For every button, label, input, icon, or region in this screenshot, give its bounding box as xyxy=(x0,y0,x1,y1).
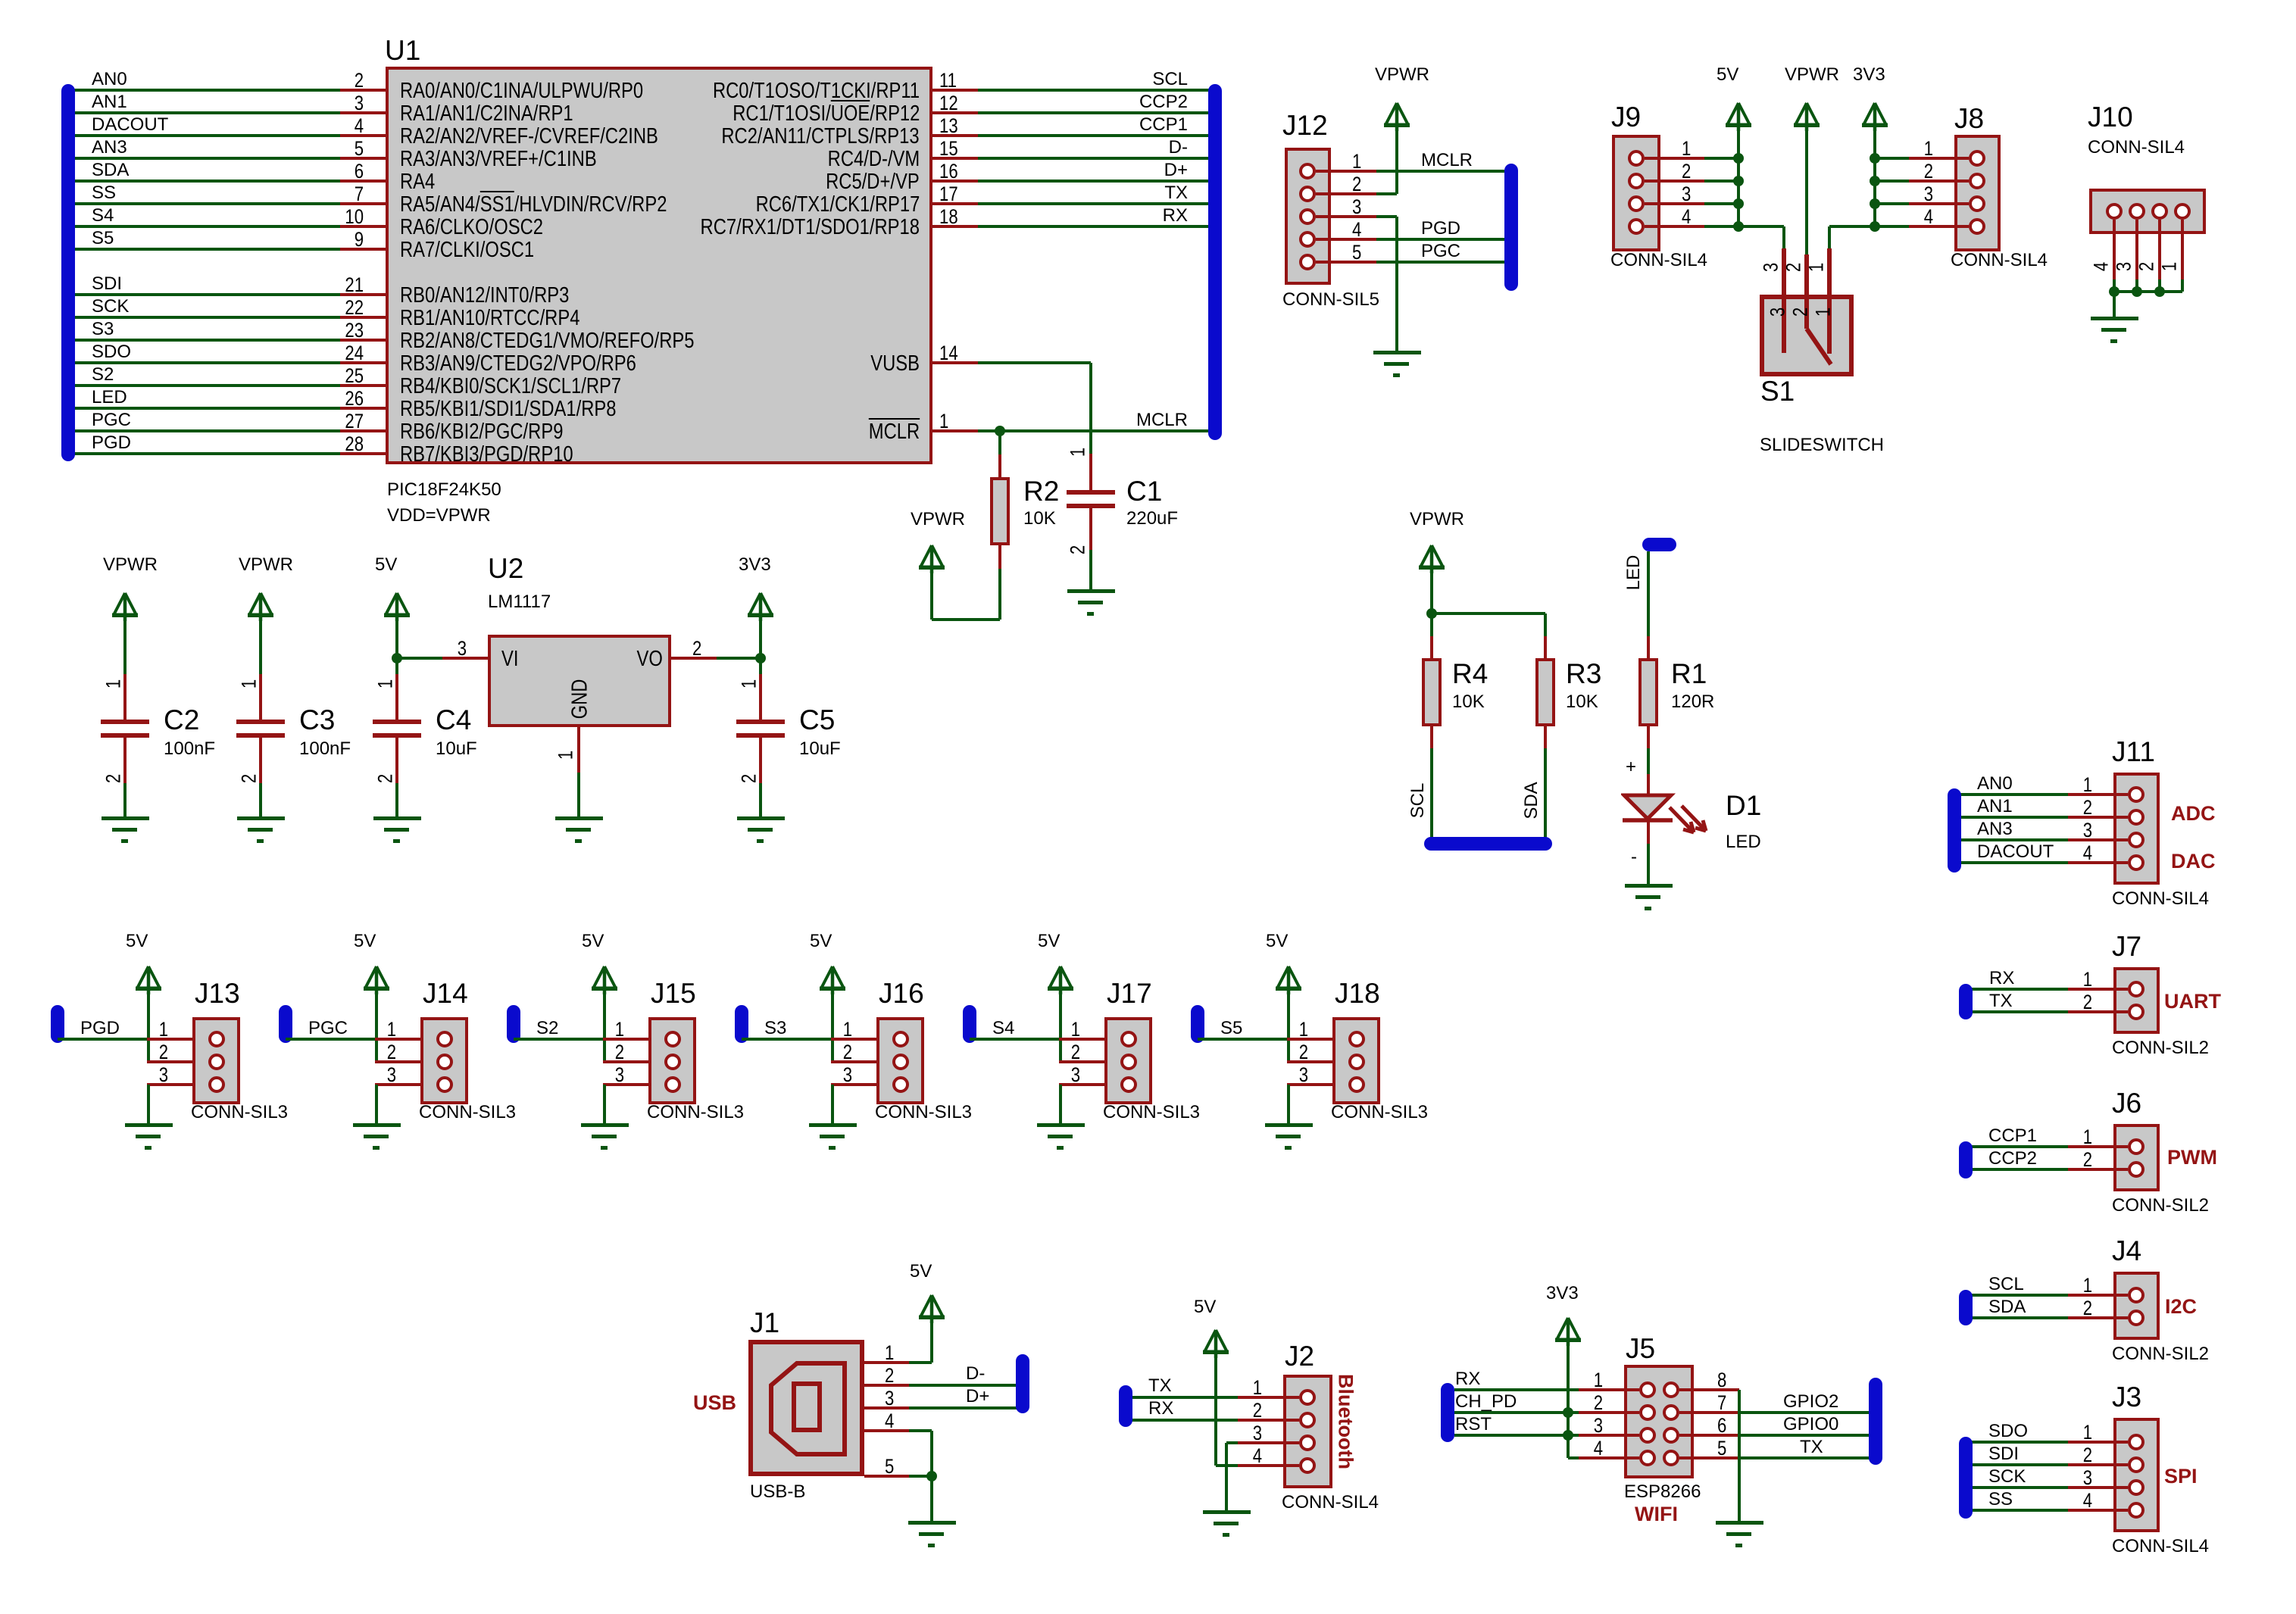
U1 pin 1 MCLR stub xyxy=(932,429,978,432)
J15 value CONN-SIL3 xyxy=(647,1102,744,1123)
J5 pin 5 circle xyxy=(1663,1450,1679,1466)
net label SDA at J4 xyxy=(1988,1297,2026,1318)
wire net PGC to U1 pin 27 xyxy=(68,429,340,432)
C1 value 220uF xyxy=(1126,508,1178,529)
U1 pin number 5 xyxy=(355,137,364,161)
J10 pin number 4 (rotated) xyxy=(2090,262,2113,271)
wire 5V stem at J2 xyxy=(1214,1353,1217,1466)
wire junction to R3 xyxy=(1432,612,1545,615)
wire net DACOUT to U1 pin 4 xyxy=(68,134,340,137)
S1 pin 2 lead xyxy=(1804,254,1809,329)
net label AN3 at J11 xyxy=(1977,819,2013,840)
J4 pin number 1 xyxy=(2083,1274,2092,1297)
J5 pin number 8 xyxy=(1717,1369,1726,1392)
net label TX at J7 xyxy=(1989,991,2013,1012)
wire net AN3 to J11 pin 3 xyxy=(1950,838,2068,841)
J8 pin 4 circle xyxy=(1969,218,1985,235)
U1 pin number 4 xyxy=(355,114,364,138)
ground symbol below J15 xyxy=(580,1123,629,1152)
J18 pin number 1 xyxy=(1299,1018,1308,1041)
J3 pin number 1 xyxy=(2083,1421,2092,1444)
connector J5 reference label xyxy=(1626,1333,1655,1365)
wire up to VPWR symbol xyxy=(930,568,933,620)
S1 inner pin number 1 (rotated) xyxy=(1812,308,1835,317)
wire D+ net xyxy=(909,1406,1017,1410)
wire net CCP2 to J6 pin 2 xyxy=(1961,1168,2068,1171)
J1 pin 1 stub xyxy=(864,1361,909,1364)
wire net RX from U1 pin 18 xyxy=(978,225,1215,228)
U2 GND pin stub xyxy=(577,727,580,773)
S1 outer pin number 3 (rotated) xyxy=(1760,263,1783,272)
net label SCL xyxy=(1152,69,1188,90)
wire net S4 to U1 pin 10 xyxy=(68,225,340,228)
J16 pin 1 circle xyxy=(892,1031,909,1047)
power symbol VPWR above S1 xyxy=(1792,101,1821,131)
connector J13 reference label xyxy=(195,978,240,1010)
power symbol 5V above J2 xyxy=(1201,1328,1230,1358)
S1 outer pin number 1 (rotated) xyxy=(1805,263,1829,272)
wire J16 pin 3 to ground xyxy=(831,1085,834,1123)
J18 value CONN-SIL3 xyxy=(1331,1102,1428,1123)
wire RX to J2 pin2 xyxy=(1132,1419,1238,1422)
D1 cathode lead xyxy=(1647,820,1650,844)
wire 5V elbow J13 pin 2 xyxy=(147,1060,150,1063)
connector J4 reference label xyxy=(2112,1235,2141,1267)
S1 inner pin number 3 (rotated) xyxy=(1767,308,1790,317)
wire J10 pin3 down xyxy=(2135,279,2138,292)
J13 value CONN-SIL3 xyxy=(191,1102,288,1123)
J9 pin 2 lead xyxy=(1645,180,1704,183)
power label VPWR xyxy=(911,509,965,530)
junction above R4 xyxy=(1426,608,1437,619)
net label PGC at J12 xyxy=(1421,241,1460,262)
wire VPWR stem to S1 pin 2 xyxy=(1805,126,1808,254)
J2 pin 4 circle xyxy=(1299,1457,1316,1474)
C2 pin number 2 (rotated) xyxy=(102,774,126,783)
J11 pin 4 lead xyxy=(2068,861,2128,864)
port label Bluetooth (rotated) xyxy=(1334,1374,1357,1469)
C4 pin 1 lead xyxy=(395,674,398,720)
J2 pin number 2 xyxy=(1253,1399,1262,1422)
J17 pin number 2 xyxy=(1071,1041,1080,1064)
net label LED (rotated) xyxy=(1623,555,1645,591)
capacitor C1 plates xyxy=(1067,490,1115,495)
J11 value CONN-SIL4 xyxy=(2112,888,2209,910)
USB receptacle icon xyxy=(767,1359,847,1459)
U1 pin number 25 xyxy=(345,364,364,388)
ground symbol below D1 xyxy=(1624,884,1673,913)
U1 pin number 26 xyxy=(345,387,364,411)
R1 value 120R xyxy=(1671,691,1714,713)
R2 value 10K xyxy=(1023,508,1056,529)
wire 5V stem at J1 xyxy=(930,1318,933,1363)
junction J10 pin3 xyxy=(2132,286,2142,297)
C3 value 100nF xyxy=(299,738,351,760)
wire net CCP1 from U1 pin 13 xyxy=(978,134,1215,137)
connector J7 body xyxy=(2113,967,2160,1034)
U1 pin name RB0 xyxy=(400,283,569,308)
connector J15 body xyxy=(648,1017,696,1104)
connector J17 reference label xyxy=(1107,978,1152,1010)
J10 pin number 3 (rotated) xyxy=(2113,262,2136,271)
port label WIFI xyxy=(1635,1503,1678,1526)
U1 pin number 23 xyxy=(345,319,364,342)
J5 pin number 4 xyxy=(1594,1437,1603,1460)
power label 5V above J18 xyxy=(1266,931,1288,952)
R4 bottom pin xyxy=(1430,725,1433,748)
port label I2C xyxy=(2165,1295,2197,1319)
D1 value LED xyxy=(1726,832,1761,853)
power label 5V above J2 xyxy=(1194,1297,1216,1318)
power symbol 5V above J17 xyxy=(1046,964,1075,994)
S1 pin 1 lead xyxy=(1827,248,1832,354)
J13 pin 1 circle xyxy=(208,1031,225,1047)
J2 pin 2 lead xyxy=(1238,1419,1299,1422)
junction on MCLR net xyxy=(995,426,1005,436)
power label 5V above J17 xyxy=(1038,931,1060,952)
J17 pin 3 circle xyxy=(1120,1076,1137,1093)
wire CH_PD to J5 pin2 xyxy=(1454,1411,1579,1414)
net label PGC xyxy=(92,410,131,431)
wire VUSB to C1 xyxy=(978,361,1091,364)
wire down to ground at J12 xyxy=(1395,217,1398,351)
J8 pin number 1 xyxy=(1924,137,1933,161)
junction 5V rail row 2 xyxy=(1733,176,1744,186)
C1 reference label xyxy=(1126,476,1162,507)
U1 pin 7 stub xyxy=(340,202,386,205)
J13 pin 3 lead xyxy=(147,1083,192,1086)
J3 pin number 4 xyxy=(2083,1489,2092,1513)
U1 pin number 17 xyxy=(939,183,958,206)
U1 pin name RC6 xyxy=(755,192,920,217)
J11 pin 4 circle xyxy=(2128,854,2144,871)
wire J12 pin2 to VPWR xyxy=(1376,192,1397,195)
wire R2 bottom horizontal xyxy=(932,618,1000,621)
power label 5V above J13 xyxy=(126,931,148,952)
net label S2 xyxy=(536,1018,558,1039)
J18 pin 2 lead xyxy=(1287,1060,1332,1063)
junction J10 pin4 xyxy=(2109,286,2120,297)
J14 value CONN-SIL3 xyxy=(419,1102,516,1123)
connector J2 body xyxy=(1283,1375,1332,1488)
ground symbol below C3 xyxy=(236,816,285,845)
U1 pin name RB2 xyxy=(400,329,695,354)
wire 3V3 rail to J8 pin 3 xyxy=(1875,202,1909,205)
J12 pin 4 lead xyxy=(1316,238,1376,241)
S1 pin 3 lead xyxy=(1782,248,1786,353)
J8 pin 3 circle xyxy=(1969,195,1985,212)
junction 5V rail row 4 xyxy=(1733,221,1744,232)
U1 pin number 11 xyxy=(939,69,957,92)
J15 pin 3 circle xyxy=(664,1076,681,1093)
J4 pin 1 lead xyxy=(2068,1294,2128,1297)
connector J9 reference label xyxy=(1611,101,1641,133)
junction 3V3 rail row 1 xyxy=(1870,153,1880,164)
J9 pin 3 circle xyxy=(1628,195,1645,212)
ground symbol below C1 xyxy=(1067,589,1115,618)
connector J9 body xyxy=(1612,135,1660,251)
wire R4 to SCL terminal xyxy=(1430,748,1433,844)
wire PGC to J14 pin 1 xyxy=(286,1038,375,1041)
U1 pin name RA2 xyxy=(400,124,658,149)
net label AN0 at J11 xyxy=(1977,773,2013,795)
power label 5V above J9 xyxy=(1717,64,1738,86)
U1 pin number 10 xyxy=(345,205,364,229)
U1 pin number 24 xyxy=(345,342,364,365)
J17 pin 2 lead xyxy=(1059,1060,1104,1063)
resistor R3 xyxy=(1535,658,1555,726)
wire C4 pin 2 to ground xyxy=(395,783,398,816)
junction 3V3 rail row 4 xyxy=(1870,221,1880,232)
U1 pin 21 stub xyxy=(340,293,386,296)
J1 pin 4 stub xyxy=(864,1429,909,1432)
R2 top pin xyxy=(998,454,1001,477)
wire net SDO to U1 pin 24 xyxy=(68,361,340,364)
J18 pin 1 circle xyxy=(1348,1031,1365,1047)
wire VPWR to C2 pin 1 xyxy=(123,613,127,674)
C3 reference label xyxy=(299,704,335,736)
net label CCP1 at J6 xyxy=(1988,1125,2037,1147)
J16 pin 2 circle xyxy=(892,1054,909,1070)
J1 pin 2 stub xyxy=(864,1384,909,1387)
S1 blade xyxy=(1803,326,1837,368)
U1 pin 22 stub xyxy=(340,316,386,319)
wire J5 pin8 to ground rail xyxy=(1738,1390,1741,1521)
J11 pin 1 lead xyxy=(2068,793,2128,796)
port label ADC xyxy=(2171,802,2216,826)
wire net DACOUT to J11 pin 4 xyxy=(1950,861,2068,864)
wire VPWR to C3 pin 1 xyxy=(259,613,262,674)
U1 pin 26 stub xyxy=(340,407,386,410)
net label RX at J5 xyxy=(1455,1369,1480,1390)
J16 value CONN-SIL3 xyxy=(875,1102,972,1123)
J7 pin 1 circle xyxy=(2128,981,2144,997)
C4 value 10uF xyxy=(436,738,477,760)
J16 pin 2 lead xyxy=(831,1060,876,1063)
U2 pin name GND (rotated) xyxy=(568,679,593,720)
C5 value 10uF xyxy=(799,738,841,760)
U1 pin name RA7 xyxy=(400,238,534,263)
U1 pin name RA0 xyxy=(400,79,643,104)
J3 pin 1 lead xyxy=(2068,1441,2128,1444)
wire J1 pin4 elbow xyxy=(909,1429,932,1432)
J15 pin 1 circle xyxy=(664,1031,681,1047)
C4 pin number 2 (rotated) xyxy=(374,774,398,783)
junction 3V3/CH_PD xyxy=(1563,1407,1573,1418)
power label 3V3 above C5 xyxy=(739,554,771,576)
wire net TX from U1 pin 17 xyxy=(978,202,1215,205)
J1 pin number 4 xyxy=(885,1410,894,1433)
C4 pin number 1 (rotated) xyxy=(374,679,398,688)
net label CCP2 at J6 xyxy=(1988,1148,2037,1169)
U2 pin 3 stub xyxy=(442,657,488,660)
U1 pin name MCLR xyxy=(869,420,920,445)
net label SS xyxy=(92,183,116,204)
connector J14 body xyxy=(420,1017,468,1104)
power symbol 5V above J15 xyxy=(590,964,619,994)
wire net SCK to U1 pin 22 xyxy=(68,316,340,319)
connector J8 reference label xyxy=(1954,103,1984,135)
J12 pin 5 circle xyxy=(1299,254,1316,270)
U1 pin number 14 xyxy=(939,342,958,365)
J11 pin 1 circle xyxy=(2128,786,2144,803)
junction 3V3/RST xyxy=(1563,1430,1573,1441)
ground symbol below J16 xyxy=(808,1123,857,1152)
wire net CCP1 to J6 pin 1 xyxy=(1961,1145,2068,1148)
terminal strip TX/RX at J2 xyxy=(1119,1385,1132,1427)
C2 value 100nF xyxy=(164,738,215,760)
R2 bottom pin xyxy=(998,545,1001,569)
junction at J1 pin 5 xyxy=(926,1471,937,1481)
U1 pin name RA4 xyxy=(400,170,435,195)
connector J1 USB-B body xyxy=(748,1340,864,1476)
J9 pin number 4 xyxy=(1682,205,1691,229)
C5 pin number 1 (rotated) xyxy=(738,679,761,688)
C2 pin number 1 (rotated) xyxy=(102,679,126,688)
connector J10 value CONN-SIL4 xyxy=(2088,137,2185,158)
J10 pin 2 lead xyxy=(2158,220,2161,279)
J17 pin number 1 xyxy=(1071,1018,1080,1041)
J1 pin number 2 xyxy=(885,1364,894,1388)
J10 pin number 2 (rotated) xyxy=(2135,262,2159,271)
J5 pin number 3 xyxy=(1594,1414,1603,1438)
power label VPWR above C3 xyxy=(239,554,293,576)
bus terminal strip left of U1 xyxy=(61,84,75,461)
U1 pin name RA3 xyxy=(400,147,597,172)
J17 pin 1 circle xyxy=(1120,1031,1137,1047)
R1 top pin xyxy=(1647,636,1650,658)
terminal strip right of J5 xyxy=(1869,1378,1882,1465)
J2 pin number 4 xyxy=(1253,1444,1262,1468)
wire 3V3 to C5 pin 1 xyxy=(759,613,762,674)
J12 pin number 5 xyxy=(1352,241,1361,264)
connector J5 body xyxy=(1624,1365,1694,1478)
ground symbol below J18 xyxy=(1264,1123,1313,1152)
J3 pin 4 lead xyxy=(2068,1509,2128,1512)
J14 pin number 2 xyxy=(387,1041,396,1064)
net label CCP2 xyxy=(1139,92,1188,113)
wire RST to J5 pin3 xyxy=(1454,1434,1579,1437)
net label SDO at J3 xyxy=(1988,1421,2028,1442)
terminal S3 xyxy=(735,1005,748,1043)
U1 pin 9 stub xyxy=(340,248,386,251)
net label GPIO0 xyxy=(1783,1414,1838,1435)
connector J10 body xyxy=(2089,189,2206,234)
R1 bottom pin xyxy=(1647,725,1650,748)
junction 5V rail row 3 xyxy=(1733,198,1744,209)
terminal S5 xyxy=(1191,1005,1204,1043)
junction 3V3 rail row 3 xyxy=(1870,198,1880,209)
U1 pin name RB5 xyxy=(400,397,616,422)
junction at C5 pin 1 xyxy=(755,653,766,663)
U1 pin name RB6 xyxy=(400,420,563,445)
wire 5V elbow J15 pin 2 xyxy=(603,1060,606,1063)
J16 pin 3 lead xyxy=(831,1083,876,1086)
J5 pin number 7 xyxy=(1717,1391,1726,1415)
wire C5 pin 2 to ground xyxy=(759,783,762,816)
port label PWM xyxy=(2167,1146,2217,1169)
net label RST xyxy=(1455,1414,1492,1435)
connector J11 body xyxy=(2113,773,2160,885)
D1 minus sign xyxy=(1631,847,1637,868)
J11 pin 3 circle xyxy=(2128,832,2144,848)
U1 pin number 9 xyxy=(355,228,364,251)
R4 top pin xyxy=(1430,636,1433,658)
net label D+ xyxy=(966,1386,989,1407)
power symbol 3V3 above J8 rail xyxy=(1860,101,1889,131)
U1 pin name RB4 xyxy=(400,374,621,399)
junction J10 pin2 xyxy=(2154,286,2165,297)
wire J2 pin3 elbow xyxy=(1226,1441,1238,1444)
net label SDO xyxy=(92,342,131,363)
wire 5V to C4 pin 1 xyxy=(395,613,398,674)
connector J15 reference label xyxy=(651,978,696,1010)
3V3 rail vertical xyxy=(1873,126,1876,226)
J5 pin 4 circle xyxy=(1639,1450,1656,1466)
J5 pin number 6 xyxy=(1717,1414,1726,1438)
wire J10 ground bus xyxy=(2114,290,2182,293)
C5 pin 2 lead xyxy=(759,738,762,783)
resistor R1 xyxy=(1638,658,1658,726)
ground symbol below C5 xyxy=(736,816,785,845)
wire net SS to U1 pin 7 xyxy=(68,202,340,205)
net label SCL (rotated) xyxy=(1407,783,1429,819)
U1 pin 27 stub xyxy=(340,429,386,432)
D1 reference label xyxy=(1726,790,1761,822)
net label AN3 xyxy=(92,137,127,158)
J15 pin number 2 xyxy=(615,1041,624,1064)
J13 pin 1 lead xyxy=(147,1038,192,1041)
J15 pin number 1 xyxy=(615,1018,624,1041)
net label PGC xyxy=(308,1018,348,1039)
power symbol 5V above C4 xyxy=(383,591,411,621)
J10 pin 2 circle xyxy=(2151,203,2168,220)
U1 pin 17 stub xyxy=(932,202,978,205)
U1 pin 12 stub xyxy=(932,111,978,114)
U1 pin 14 VUSB stub xyxy=(932,361,978,364)
C2 pin 2 lead xyxy=(123,738,127,783)
wire GPIO0 net xyxy=(1739,1434,1870,1437)
J8 pin number 4 xyxy=(1924,205,1933,229)
connector J18 body xyxy=(1332,1017,1380,1104)
U1 pin name RA1 xyxy=(400,101,573,126)
J9 pin number 2 xyxy=(1682,160,1691,183)
J7 pin 1 lead xyxy=(2068,988,2128,991)
terminal strip SCL/SDA xyxy=(1424,837,1552,851)
U1 pin number 13 xyxy=(939,114,958,138)
net label AN1 xyxy=(92,92,127,113)
wire J18 pin 3 to ground xyxy=(1287,1085,1290,1123)
power label 5V above J16 xyxy=(810,931,832,952)
J1 value USB-B xyxy=(750,1481,805,1503)
ground symbol below U2 xyxy=(554,816,603,845)
C5 reference label xyxy=(799,704,835,736)
capacitor C4 plates xyxy=(373,720,421,724)
J2 pin 1 circle xyxy=(1299,1389,1316,1406)
U1 pin number 18 xyxy=(939,205,958,229)
J2 pin 3 circle xyxy=(1299,1434,1316,1451)
net label PGD xyxy=(80,1018,120,1039)
U1 pin 25 stub xyxy=(340,384,386,387)
J5 pin 1 lead xyxy=(1579,1388,1639,1391)
wire J9 pin 2 to 5V rail xyxy=(1704,180,1738,183)
J5 pin 8 circle xyxy=(1663,1381,1679,1398)
J5 pin 6 lead xyxy=(1679,1434,1739,1437)
J10 pin 4 circle xyxy=(2106,203,2123,220)
wire J9 pin 4 to 5V rail xyxy=(1704,225,1738,228)
U1 pin 13 stub xyxy=(932,134,978,137)
J1 pin number 1 xyxy=(885,1341,894,1365)
